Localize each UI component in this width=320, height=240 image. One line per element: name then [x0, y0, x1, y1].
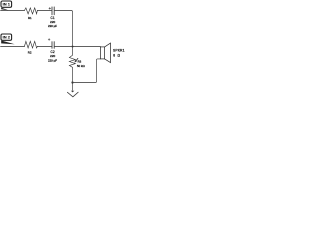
flag IN2 pointer tail	[1, 41, 15, 45]
capacitor C1 plates	[51, 7, 53, 15]
speaker SPKR1 body	[100, 47, 104, 59]
ground chevron	[67, 92, 78, 97]
wiper arrow head	[74, 60, 77, 63]
node junction dot	[71, 45, 73, 47]
wiper arrow tail	[76, 58, 78, 60]
wire rail1 mid	[37, 10, 51, 12]
svg-text:SPKR1: SPKR1	[113, 48, 125, 52]
svg-text:220 µF: 220 µF	[48, 24, 57, 28]
potentiometer R3 zigzag	[69, 47, 75, 83]
svg-text:220 µF: 220 µF	[48, 58, 57, 62]
svg-text:R2: R2	[28, 51, 32, 55]
resistor R1	[24, 8, 37, 14]
flag IN1 pointer tail	[1, 8, 8, 11]
svg-text:IN 1: IN 1	[3, 2, 11, 7]
svg-text:IN 2: IN 2	[3, 35, 11, 40]
speaker cone	[105, 43, 111, 63]
input flag IN2	[1, 34, 12, 40]
svg-text:50 kΩ: 50 kΩ	[77, 64, 86, 68]
capacitor C1 plus sign	[49, 7, 51, 9]
wire rail1 right + bus corner	[55, 11, 73, 47]
input flag IN1	[1, 1, 12, 7]
wire rail2 left	[1, 46, 25, 48]
resistor R2	[24, 41, 37, 48]
svg-text:R1: R1	[28, 16, 32, 20]
ground lead	[72, 83, 74, 91]
svg-text:R3: R3	[78, 59, 82, 63]
ground arrowhead	[71, 91, 74, 93]
wire rail2 mid	[37, 46, 51, 48]
capacitor C2 plates	[51, 42, 53, 49]
wire rail2 right	[55, 46, 73, 48]
wire to speaker	[73, 46, 101, 48]
svg-text:8 Ω: 8 Ω	[113, 54, 121, 58]
node junction dot bottom	[71, 81, 73, 83]
speaker bottom lead wire	[73, 59, 100, 83]
wire rail1 left	[1, 10, 25, 12]
capacitor C2 plus sign	[48, 39, 50, 41]
